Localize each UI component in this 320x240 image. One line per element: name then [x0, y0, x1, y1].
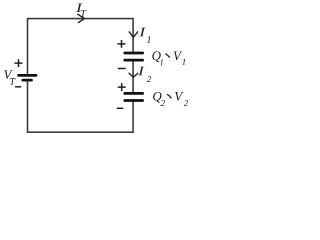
wire right middle: [132, 61, 134, 93]
capacitor Q2 bottom plate: [125, 99, 143, 102]
wire left lower: [27, 81, 29, 133]
capacitor Q1 plus sign: [118, 40, 126, 48]
wire right upper: [132, 18, 134, 52]
capacitor Q2 top plate: [125, 92, 143, 95]
battery VT minus sign: [15, 86, 21, 88]
label IT - subscript T: [81, 10, 87, 17]
battery VT long positive plate: [19, 74, 36, 77]
arrow IT (current arrow on top wire): [78, 14, 85, 22]
label V1 - V: [174, 51, 183, 60]
label VT - subscript T: [10, 78, 16, 85]
label IT - I: [76, 3, 83, 12]
label V1 - subscript 1: [182, 59, 185, 65]
capacitor Q1 minus sign: [118, 68, 126, 70]
label I1 - I: [139, 28, 146, 37]
label I1 - subscript 1: [147, 36, 151, 43]
wire top (IT branch): [28, 18, 134, 20]
battery VT short negative plate: [23, 79, 32, 82]
ideographic comma between Q2 and V2: [167, 94, 171, 98]
ideographic comma between Q1 and V1: [166, 54, 170, 57]
label VT - V: [4, 70, 13, 79]
capacitor Q1 bottom plate: [125, 59, 143, 62]
label Q1 - Q: [152, 51, 160, 62]
wire right lower: [132, 102, 134, 134]
label V2 - subscript 2: [184, 100, 188, 106]
label Q2 - subscript 2: [161, 100, 165, 106]
label I2 - subscript 2: [147, 76, 151, 82]
arrow I1 (current into capacitor Q1): [129, 32, 137, 37]
capacitor Q2 plus sign: [118, 83, 126, 91]
wire bottom: [27, 131, 134, 133]
label V2 - V: [175, 92, 184, 101]
label I2 - I: [138, 67, 145, 76]
battery VT plus sign: [15, 59, 23, 67]
capacitor Q2 minus sign: [117, 107, 124, 109]
capacitor Q1 top plate: [125, 52, 143, 55]
label Q2 - Q: [153, 92, 161, 103]
arrow I2 (current into capacitor Q2): [129, 73, 138, 77]
wire left upper: [27, 18, 29, 74]
label Q1 - subscript 1: [160, 59, 163, 65]
